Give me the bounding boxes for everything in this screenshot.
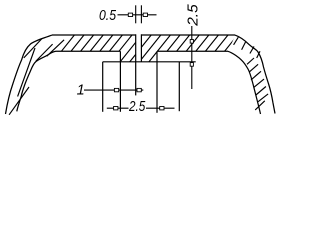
dim 1: left arrowhead <box>114 88 118 91</box>
slot groove right wall <box>140 34 142 62</box>
extension line right <box>178 62 180 111</box>
dim 1: right arrowhead <box>137 88 141 91</box>
dim 2.5 vertical: bottom arrowhead <box>190 63 193 67</box>
dim 2.5 bottom: left arrowhead <box>114 107 118 110</box>
left curl hatch rung <box>47 40 64 56</box>
svg-text:1: 1 <box>77 83 85 99</box>
dim 2.5 bottom: right arrowhead <box>160 107 164 110</box>
dim 1: dimension line <box>84 89 143 91</box>
dim 2.5 bottom: dimension line left segment <box>107 107 129 109</box>
dim 2.5 vertical: dimension line through wall <box>191 26 193 89</box>
right shell inner edge <box>228 51 261 114</box>
svg-text:2.5: 2.5 <box>185 3 201 27</box>
dim 0.5: right arrowhead <box>143 13 147 16</box>
section hatching of top wall, boss and right curl <box>2 0 320 125</box>
right curl hatch rungs <box>234 37 269 110</box>
boss right edge + extension line <box>156 51 158 113</box>
top wall inner line, right of boss <box>157 50 228 52</box>
top wall inner line, left of boss <box>56 50 120 52</box>
top wall outer line, right of slot <box>141 34 235 36</box>
left shell outer edge <box>6 35 53 114</box>
boss left edge + extension line <box>119 51 121 112</box>
dim 2.5 bottom: dimension line right segment <box>146 107 175 109</box>
extension line left <box>102 62 104 112</box>
dim 0.5: left extension line <box>135 5 137 23</box>
dim 0.5: dimension line <box>118 14 157 16</box>
top wall outer line, left of slot <box>52 34 136 36</box>
left curl long hatch line <box>18 48 35 97</box>
left curl hatch rung <box>24 39 42 58</box>
svg-text:0.5: 0.5 <box>99 8 117 24</box>
left curl long hatch line <box>9 87 29 115</box>
dim 2.5 vertical: top arrowhead <box>190 40 193 44</box>
slot groove left wall + extension line below <box>135 34 137 95</box>
right shell outer edge <box>235 35 275 113</box>
svg-text:2.5: 2.5 <box>128 99 146 115</box>
left curl hatch rung <box>36 44 53 61</box>
left shell inner edge <box>17 51 56 111</box>
dim 0.5: left arrowhead <box>128 13 132 16</box>
groove floor line with side extensions <box>103 61 196 63</box>
dim 0.5: right extension line <box>140 5 142 23</box>
